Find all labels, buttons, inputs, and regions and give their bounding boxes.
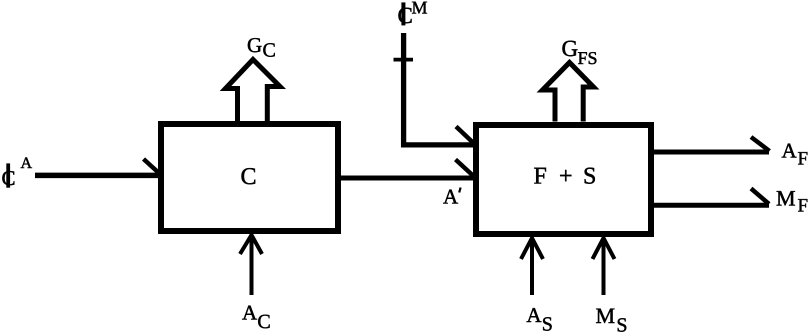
svg-text:A: A xyxy=(443,185,459,209)
svg-text:M: M xyxy=(776,186,796,211)
svg-text:C: C xyxy=(257,311,270,333)
svg-text:S: S xyxy=(583,164,596,190)
arrowhead of M_S wire xyxy=(593,238,615,259)
label A_F xyxy=(782,139,809,170)
label C^M (top net name, C with vertical strike) xyxy=(398,0,428,28)
arrowhead (half barb) of C^M wire xyxy=(456,127,474,144)
svg-text:C: C xyxy=(241,164,257,190)
wire C^M vertical then right into block F+S xyxy=(404,33,474,145)
svg-text:+: + xyxy=(559,164,573,190)
svg-text:S: S xyxy=(616,315,627,333)
block C xyxy=(161,124,338,231)
wire output A_F from block F+S xyxy=(654,150,769,155)
arrowhead (half barb) of C^A wire xyxy=(144,159,161,174)
label F + S (inside block F+S) xyxy=(534,164,597,190)
svg-text:M: M xyxy=(412,0,428,18)
arrowhead of A_S wire xyxy=(521,238,543,259)
svg-text:F: F xyxy=(534,164,547,190)
svg-text:G: G xyxy=(562,36,579,61)
wire C^A input into block C xyxy=(35,173,158,179)
arrowhead of A_C wire xyxy=(240,235,262,254)
wire input A_C into block C bottom xyxy=(250,236,254,295)
tick mark on C^M wire xyxy=(394,58,414,62)
svg-text:S: S xyxy=(542,313,553,333)
wire input M_S into block F+S bottom xyxy=(602,238,606,295)
label C^A (input net name, C with vertical strike) xyxy=(2,155,33,190)
svg-text:A: A xyxy=(782,139,798,163)
wire A' from block C to block F+S xyxy=(338,176,474,181)
svg-text:M: M xyxy=(596,303,616,328)
svg-text:FS: FS xyxy=(578,48,598,68)
label A_C xyxy=(242,301,271,333)
arrowhead (half barb) of A' wire xyxy=(456,160,475,177)
label M_F xyxy=(776,186,808,217)
label A_S xyxy=(526,303,553,333)
block F+S xyxy=(476,125,651,234)
svg-text:F: F xyxy=(798,196,809,217)
wire output M_F from block F+S xyxy=(654,203,769,208)
block arrow G_C (hollow up arrow above block C) xyxy=(226,60,281,122)
svg-text:A: A xyxy=(242,301,258,325)
block arrow G_FS (hollow up arrow above block F+S) xyxy=(543,63,594,122)
wire input A_S into block F+S bottom xyxy=(530,238,534,295)
svg-text:F: F xyxy=(798,149,809,170)
label A' (prime mark drawn as small stroke) xyxy=(443,185,461,209)
label G_FS xyxy=(562,36,598,68)
arrowhead (half barb) of A_F wire xyxy=(751,137,770,151)
svg-text:A: A xyxy=(526,303,542,327)
svg-text:C: C xyxy=(263,40,276,62)
svg-text:A: A xyxy=(21,155,33,172)
label C (inside block C) xyxy=(241,164,257,190)
label G_C xyxy=(247,33,276,62)
svg-text:G: G xyxy=(247,33,262,57)
arrowhead (half barb) of M_F wire xyxy=(751,189,769,205)
label M_S xyxy=(596,303,628,333)
